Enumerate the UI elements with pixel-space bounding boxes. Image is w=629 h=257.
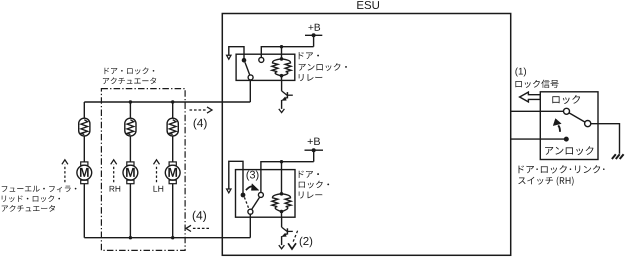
- label LH: [154, 186, 164, 192]
- wire coil to driver: [281, 76, 283, 81]
- wire branch fuel-filler upper: [83, 102, 85, 118]
- wire +B drop lower: [313, 150, 315, 162]
- wire branch LH mid: [172, 136, 174, 162]
- wire contact to +B rail: [261, 47, 313, 58]
- contact common link switch: [585, 121, 591, 127]
- arrow switch movement: [558, 125, 560, 131]
- junction bottom LH: [171, 236, 174, 239]
- label lock position: [552, 95, 580, 104]
- label door-lock-relay line3: [299, 191, 323, 198]
- wire branch LH lower: [172, 184, 174, 238]
- motor M RH: [123, 162, 138, 184]
- arrow signal (4) in: [192, 227, 210, 229]
- arrow actuate fuel-filler: [64, 165, 66, 183]
- label door-lock-link-switch line2: [518, 176, 573, 185]
- wire ESU to lock contact: [511, 110, 564, 112]
- node lock pivot: [241, 193, 246, 198]
- relay U2 door-lock-relay box: [236, 170, 296, 218]
- junction top RH: [129, 100, 132, 103]
- motor M LH: [165, 162, 180, 184]
- wire branch fuel-filler mid: [83, 136, 85, 162]
- label (4) upper: [194, 118, 207, 129]
- label fuel-filler line2: [2, 195, 60, 202]
- ground: [612, 154, 616, 159]
- relay U1 door-unlock-relay box: [236, 54, 295, 80]
- label (2): [300, 237, 313, 248]
- node unlock position: [564, 137, 569, 142]
- wire common to ground: [591, 124, 620, 154]
- power +B terminal lower: [305, 149, 324, 151]
- arrow actuate LH: [156, 165, 158, 183]
- wire lock contact to +B rail: [261, 162, 314, 193]
- wire branch RH lower: [129, 184, 131, 238]
- node +B rail / lock coil junction: [280, 160, 283, 163]
- label ESU: [357, 1, 379, 9]
- switch S1 door-lock-link-switch box: [540, 92, 598, 160]
- label RH: [110, 186, 121, 192]
- coil unlock relay: [272, 59, 282, 76]
- label fuel-filler line1: [2, 186, 77, 193]
- label door-lock-link-switch line1: [519, 165, 605, 173]
- switch arm lock relay actuated: [252, 197, 260, 209]
- wire lock coil feed: [281, 162, 283, 194]
- label +B lower: [308, 138, 320, 145]
- wire unlock pivot stem to arrow: [229, 47, 244, 60]
- contact lock position: [564, 108, 570, 114]
- label lock signal: [515, 80, 558, 88]
- wire riser to unlock relay contact: [249, 80, 251, 102]
- arrowhead lock output: [227, 189, 231, 193]
- label (4) lower: [193, 211, 206, 222]
- wire branch RH mid: [129, 136, 131, 162]
- label door-unlock-relay line3: [299, 74, 323, 81]
- transistor driver unlock: [281, 81, 283, 91]
- junction bottom RH: [129, 236, 132, 239]
- wire branch LH upper: [172, 102, 174, 118]
- wire branch RH upper: [129, 102, 131, 118]
- coil lock relay: [272, 194, 282, 212]
- wire riser to lock relay contact: [249, 214, 251, 238]
- arrow actuate RH: [113, 165, 115, 183]
- node +B rail / coil junction: [280, 45, 283, 48]
- label +B upper: [308, 24, 320, 31]
- wire lock coil to driver: [281, 212, 283, 218]
- switch arm link switch: [569, 113, 585, 122]
- switch arm lock relay rest (dashed): [244, 197, 249, 209]
- coil LH actuator: [167, 118, 178, 136]
- arrow signal (4) out: [190, 109, 208, 111]
- junction top LH: [171, 100, 174, 103]
- motor M fuel-filler: [77, 162, 92, 184]
- wire lock pivot stem to arrow: [229, 161, 243, 193]
- wire branch fuel-filler lower: [83, 184, 85, 238]
- label door-lock-actuator line2: [103, 77, 156, 84]
- arrow signal (2): [293, 231, 298, 243]
- contact unlock +B side: [259, 57, 264, 62]
- coil fuel-filler actuator: [79, 118, 90, 136]
- coil RH actuator: [125, 118, 136, 136]
- power +B terminal upper: [305, 34, 322, 36]
- wire top bus: [84, 101, 250, 103]
- arrowhead unlock output: [227, 55, 231, 59]
- label door-lock-relay line1: [299, 171, 319, 178]
- switch arm unlock relay: [245, 62, 250, 75]
- contact lock +B side: [258, 192, 263, 197]
- node unlock pivot: [242, 58, 247, 63]
- label door-unlock-relay line1: [299, 52, 319, 59]
- label (3): [247, 170, 259, 180]
- label door-unlock-relay line2: [299, 63, 347, 71]
- wire ESU to unlock contact: [511, 138, 566, 140]
- ESU control unit box: [222, 14, 510, 256]
- arrow lock signal (hollow): [520, 92, 541, 102]
- wire coil feed: [281, 47, 283, 59]
- wire bottom bus: [84, 237, 250, 239]
- dashed enclosure door-lock actuators: [101, 89, 185, 251]
- label fuel-filler line3: [2, 205, 55, 212]
- label door-lock-relay line2: [299, 181, 329, 189]
- contact unlock common: [248, 75, 253, 80]
- label (1): [515, 68, 526, 77]
- contact lock common: [248, 209, 253, 214]
- transistor driver lock: [281, 217, 283, 227]
- wire +B drop: [313, 35, 315, 46]
- label unlock position: [545, 146, 593, 155]
- arrow switch actuation (3): [246, 186, 253, 190]
- label door-lock-actuator line1: [105, 67, 155, 74]
